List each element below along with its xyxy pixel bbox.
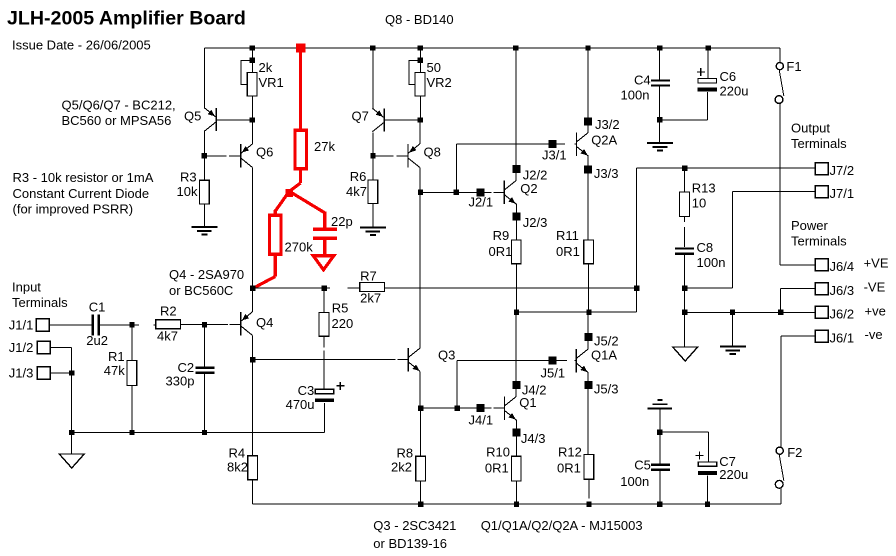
wire J1/1 to C1 [49,324,92,326]
wire Q2A collector riser [587,48,589,133]
resistor R8 [416,456,426,481]
wire R4 to bottom rail [252,480,254,504]
svg-text:J3/1: J3/1 [542,148,567,163]
terminal J4/2 [512,381,520,389]
terminal J2/3 [512,212,520,220]
label Q8 [424,145,441,160]
svg-text:R6: R6 [350,169,367,184]
wire Q6 collector [251,168,253,289]
wire Q2 emitter drop [515,204,517,241]
trimmer VR2 [415,73,425,97]
wire J1/2 stub [50,348,72,374]
wire rail to F1 [779,48,781,62]
label 22p value [331,214,353,229]
svg-text:J7/2: J7/2 [830,163,855,178]
label C4 value 100n [621,87,650,102]
label R2 [160,304,177,319]
label J6/4 [830,259,855,274]
label R1 value 47k [104,363,125,378]
wire ground triangle stem (output) [684,312,686,347]
terminal J4/1 [476,404,484,412]
svg-text:+VE: +VE [864,256,889,271]
label Q2 [520,181,537,196]
label Q2A [591,132,617,147]
svg-text:220u: 220u [719,467,748,482]
node top rail / C6 [706,45,711,50]
svg-text:0R1: 0R1 [556,244,580,259]
wire C4 top lead [659,48,661,79]
svg-text:R3: R3 [180,170,197,185]
svg-text:270k: 270k [285,239,314,254]
svg-text:F2: F2 [787,445,802,460]
label J5/3 [594,381,619,396]
label R9 [493,228,510,243]
svg-text:Terminals: Terminals [12,295,68,310]
svg-text:F1: F1 [786,59,801,74]
wire R2 to Q4 base [180,323,240,325]
wire Q1A collector riser [587,312,589,350]
svg-text:Terminals: Terminals [791,234,847,249]
svg-text:10k: 10k [177,184,198,199]
transistor Q8 [408,144,420,167]
wire input ground drop [71,373,73,433]
wire bottom drive row [421,407,505,409]
label C8 [697,240,714,255]
svg-text:47k: 47k [104,363,125,378]
svg-text:R11: R11 [556,228,579,243]
node Q8 collector / J2 drive [418,190,423,195]
capacitor C4 [651,80,670,85]
label C6 value 220u [720,84,749,99]
label C2 value 330p [166,373,195,388]
wire R13 top lead [684,168,686,192]
node J1/3 / J1/2 junction [69,370,74,375]
Q4 type note line1 [169,267,244,282]
node Q4 collector / Q3 base wire [250,357,255,362]
label R6 [350,169,367,184]
wire F1 to J6/4 [780,104,816,265]
label R7 value 2k7 [360,290,381,305]
fuse F1 [775,63,784,104]
node output / R13 [682,165,687,170]
svg-text:Q8 - BD140: Q8 - BD140 [385,12,454,27]
wire power ground row [685,311,816,313]
label C3 [298,383,315,398]
label R3 value 10k [177,184,198,199]
ground earth (power) [720,347,746,355]
wire C5 top lead [659,432,661,463]
label J4/3 [521,431,546,446]
node ground bus / input [69,430,74,435]
resistor R5 [319,313,329,337]
label R5 value 220 [332,316,354,331]
wire C4 bottom lead [659,87,661,120]
label R8 value 2k2 [391,460,412,475]
Q8 type note [385,12,454,27]
label R4 [229,446,246,461]
label C2 [178,360,195,375]
label J5/1 [541,365,566,380]
node C1 / R1 junction [129,322,134,327]
svg-text:Q1/Q1A/Q2/Q2A - MJ15003: Q1/Q1A/Q2/Q2A - MJ15003 [481,518,643,533]
label J1/3 [9,366,34,381]
svg-text:Q7: Q7 [352,109,369,124]
wire ground triangle stem [71,433,73,455]
wire drive row to Q2 base [421,191,505,193]
svg-text:VR2: VR2 [427,75,452,90]
wire R6 to ground [372,204,374,228]
svg-text:J4/1: J4/1 [469,413,494,428]
label R12 [558,444,582,459]
wire C2 bottom lead [204,374,206,433]
node top rail / VR1 [250,45,255,50]
terminal J6/4 [815,259,828,271]
trimmer VR1 [247,73,257,97]
svg-text:0R1: 0R1 [557,461,581,476]
input terminals label line1 [12,279,41,294]
label 270k value [285,239,314,254]
wire J7/1 lead [733,191,816,193]
label J5/2 [594,334,619,349]
terminal J1/3 [37,367,50,379]
output terminals label line1 [791,121,830,136]
node power ground / J6-3 [778,310,783,315]
wire Q8 emitter riser [419,120,421,144]
resistor R2 [156,320,181,329]
wire R12 bottom lead [588,479,590,498]
wire red diagonal to Q4 node [253,277,275,289]
label R10 value 0R1 [485,461,509,476]
svg-text:4k7: 4k7 [157,329,178,344]
terminal J3/2 [584,117,592,125]
wire Q1 emitter drop [515,420,517,457]
wire top ground stem [659,120,661,143]
label J1/1 [9,317,34,332]
svg-text:J5/1: J5/1 [541,365,566,380]
power terminals label line1 [791,218,829,233]
label C1 [89,299,106,314]
svg-text:2u2: 2u2 [86,333,108,348]
wire VR1 top lead [251,48,253,73]
wire R3 to ground [203,204,205,227]
label C7 [719,454,736,469]
wire C7 bottom lead [707,476,709,505]
node top rail / C4 [657,45,662,50]
label J2/1 [469,195,494,210]
resistor R3 [200,180,210,204]
svg-text:J7/1: J7/1 [830,186,855,201]
transistor Q3 [408,348,420,371]
transistor Q4 [241,312,253,335]
wire Q7 collector to rail [372,48,374,108]
capacitor C3 (electrolytic) [315,389,334,402]
wire Q5 collector to R3 [203,131,205,181]
svg-text:220: 220 [332,316,354,331]
svg-text:100n: 100n [697,255,726,270]
node top rail / Q2 collector [513,45,518,50]
ground red (triangle) [313,256,334,270]
label F1 [786,59,801,74]
svg-text:J4/3: J4/3 [521,431,546,446]
Q1 type note [481,518,643,533]
wire feedback to R7 [348,287,360,289]
ground below R3 [191,227,217,235]
transistor Q2 [504,181,516,204]
svg-text:Q1A: Q1A [591,348,617,363]
label 27k value [314,139,335,154]
wire bottom V- rail [253,488,781,504]
svg-text:J1/1: J1/1 [9,317,34,332]
node Q4 emitter / feedback [250,286,255,291]
wire J1/3 stub [50,372,72,374]
wire J6/1 stub [781,336,816,447]
wire J7/1 riser [685,192,733,289]
svg-text:Q8: Q8 [424,145,441,160]
transistor Q6 [241,144,253,167]
node top rail / Q2A collector [585,45,590,50]
resistor R1 [127,361,137,386]
svg-text:J6/4: J6/4 [830,259,855,274]
svg-text:Terminals: Terminals [791,136,847,151]
node VR1 wiper top [250,58,255,63]
label R2 value 4k7 [157,329,178,344]
svg-text:220u: 220u [720,84,749,99]
output terminals label line2 [791,136,847,151]
terminal J2/1 [477,188,485,196]
label +ve [865,304,886,319]
label R6 value 4k7 [346,184,367,199]
svg-text:100n: 100n [620,474,649,489]
transistor Q7 [372,108,384,131]
wire output to J7/2 [637,167,816,169]
label R5 [332,300,349,315]
label C4 [634,72,651,87]
label C8 value 100n [697,255,726,270]
input terminals label line2 [12,295,68,310]
resistor R12 [584,455,594,480]
terminal J4/3 [513,429,521,437]
wire R5 to C3 [323,336,325,389]
fuse F2 [775,447,784,488]
node Q3 emitter / drive [418,406,423,411]
label J1/2 [9,340,34,355]
svg-text:470u: 470u [286,397,315,412]
terminal J1/1 [36,319,49,331]
label +VE [864,256,889,271]
wire Q1A emitter drop [587,372,589,455]
svg-text:-ve: -ve [865,327,883,342]
terminal J3/1 [548,140,556,148]
wire J6/3 stub [781,288,816,312]
label C5 [634,457,651,472]
issue date note [12,38,151,53]
wire Q6 base lead [204,155,240,157]
wire VR2 top lead [419,48,421,73]
wire red from rail to 27k [299,51,302,130]
wire R13 to C8 [684,217,686,247]
wire output bus (y312) [516,311,636,313]
wire R11 bottom lead [588,263,590,312]
label Q3 [438,348,455,363]
transistor Q1 [504,397,516,420]
capacitor C8 [675,248,694,253]
wire earth ground stem [732,312,734,346]
terminal J7/1 [815,186,828,198]
svg-text:or BD139-16: or BD139-16 [373,536,447,551]
capacitor 22p (red) [313,229,337,238]
wire VR2 bottom lead [419,96,421,120]
label R12 value 0R1 [557,461,581,476]
node bottom rail / C7 [705,501,710,506]
wire R7 to output bus [384,287,636,289]
label VR2 value 50 [427,60,441,75]
node output bus / R9-Q1 [514,310,519,315]
label F2 [787,445,802,460]
wire Q5 emitter to rail [203,48,205,108]
label C3 value 470u [286,397,315,412]
terminal J3/3 [584,166,592,174]
label J7/2 [830,163,855,178]
svg-text:J5/3: J5/3 [594,381,619,396]
wire C3 bottom lead [324,403,326,433]
wire feedback bus left [252,287,330,289]
wire VR2 wiper loop [409,60,420,84]
node power ground / C8 [682,310,687,315]
label R11 [556,228,579,243]
wire R8 bottom lead [420,481,422,504]
svg-text:C8: C8 [697,240,714,255]
wire Q7 base to VR2 [384,119,420,121]
svg-text:50: 50 [427,60,441,75]
R3 note line2 [13,186,150,201]
label Q1A [591,348,617,363]
svg-text:R5: R5 [332,300,349,315]
terminal J7/2 [815,163,828,175]
svg-text:J2/2: J2/2 [523,167,548,182]
label Q4 [256,315,273,330]
R3 note line3 [13,202,134,217]
capacitor C6 (electrolytic) [698,79,717,92]
wire Q4 emitter riser [251,288,253,312]
svg-text:R13: R13 [692,181,716,196]
terminal J6/1 [815,330,828,342]
label J6/3 [830,283,855,298]
wire VR1 bottom lead [251,96,253,120]
svg-text:330p: 330p [166,373,195,388]
svg-text:J6/1: J6/1 [830,330,855,345]
svg-text:2k2: 2k2 [391,460,412,475]
resistor 270k (red) [269,215,281,254]
wire Q8 collector drop [419,167,421,348]
label Q5 [184,109,201,124]
wire R1 bottom lead [131,386,133,433]
label R13 [692,181,716,196]
label J2/3 [523,215,548,230]
resistor R4 [248,456,258,480]
svg-text:R7: R7 [360,269,377,284]
label VR1 [259,75,284,90]
label C7 value 220u [719,467,748,482]
capacitor C5 [651,465,670,470]
svg-text:BC560 or MPSA56: BC560 or MPSA56 [62,113,172,128]
wire Q5 base to VR1 [216,119,252,121]
label J2/2 [523,167,548,182]
label Q7 [352,109,369,124]
svg-text:-VE: -VE [864,280,886,295]
svg-text:100n: 100n [621,87,650,102]
node C5 / C7 top [657,430,662,435]
wire red 27k bottom lead [299,169,302,183]
svg-text:R2: R2 [160,304,177,319]
node drive / J3 riser [454,190,459,195]
terminal J6/2 [815,306,828,318]
node C4 / ground [657,117,662,122]
wire Q7 collector to R6 [372,133,374,181]
svg-text:+ve: +ve [865,304,886,319]
svg-text:Q3 - 2SC3421: Q3 - 2SC3421 [373,518,456,533]
capacitor C6 plus sign [697,68,705,76]
wire R10 bottom lead [516,481,518,504]
terminal J5/1 [548,357,556,365]
Q5/Q6/Q7 type note line1 [62,98,176,113]
wire red diagonal to junction [290,183,301,191]
node output column / feedback [634,286,639,291]
ground input (triangle) [59,454,84,468]
svg-text:2k: 2k [259,60,273,75]
svg-text:Q4 - 2SA970: Q4 - 2SA970 [169,267,244,282]
resistor R13 [680,192,690,217]
svg-text:R12: R12 [558,444,582,459]
svg-text:J5/2: J5/2 [594,334,619,349]
wire Q4 collector drop [252,335,254,456]
label J3/3 [594,166,619,181]
wire C6 top lead [707,48,709,79]
label R1 [108,349,125,364]
svg-text:J3/2: J3/2 [595,117,620,132]
wire R9 bottom lead [515,263,517,312]
label R8 [397,446,414,461]
node R5 top [322,286,327,291]
svg-text:10: 10 [692,195,706,210]
resistor R6 [368,180,378,204]
node R2 / C2 junction [202,322,207,327]
svg-text:0R1: 0R1 [489,244,513,259]
node top rail / VR2 [418,45,423,50]
wire Q2A emitter drop [587,156,589,241]
wire top V+ rail [204,47,779,49]
Q5/Q6/Q7 type note line2 [62,113,172,128]
label J7/1 [830,186,855,201]
svg-text:2k7: 2k7 [360,290,381,305]
svg-text:R8: R8 [397,446,414,461]
svg-text:0R1: 0R1 [485,461,509,476]
label Q6 [256,145,273,160]
node ground bus / R1 [129,430,134,435]
wire Q1 collector riser [515,312,517,397]
node VR2 wiper top [418,58,423,63]
node bottom drive / J5 riser [455,406,460,411]
svg-text:R4: R4 [229,446,246,461]
resistor R11 [584,240,594,264]
svg-text:C5: C5 [634,457,651,472]
svg-text:J6/2: J6/2 [830,307,855,322]
svg-text:J2/3: J2/3 [523,215,548,230]
wire signal ground bus [72,403,325,433]
resistor R7 [360,283,385,292]
node power ground / earth [730,310,735,315]
resistor 27k (red) [295,130,307,169]
title [7,7,246,29]
